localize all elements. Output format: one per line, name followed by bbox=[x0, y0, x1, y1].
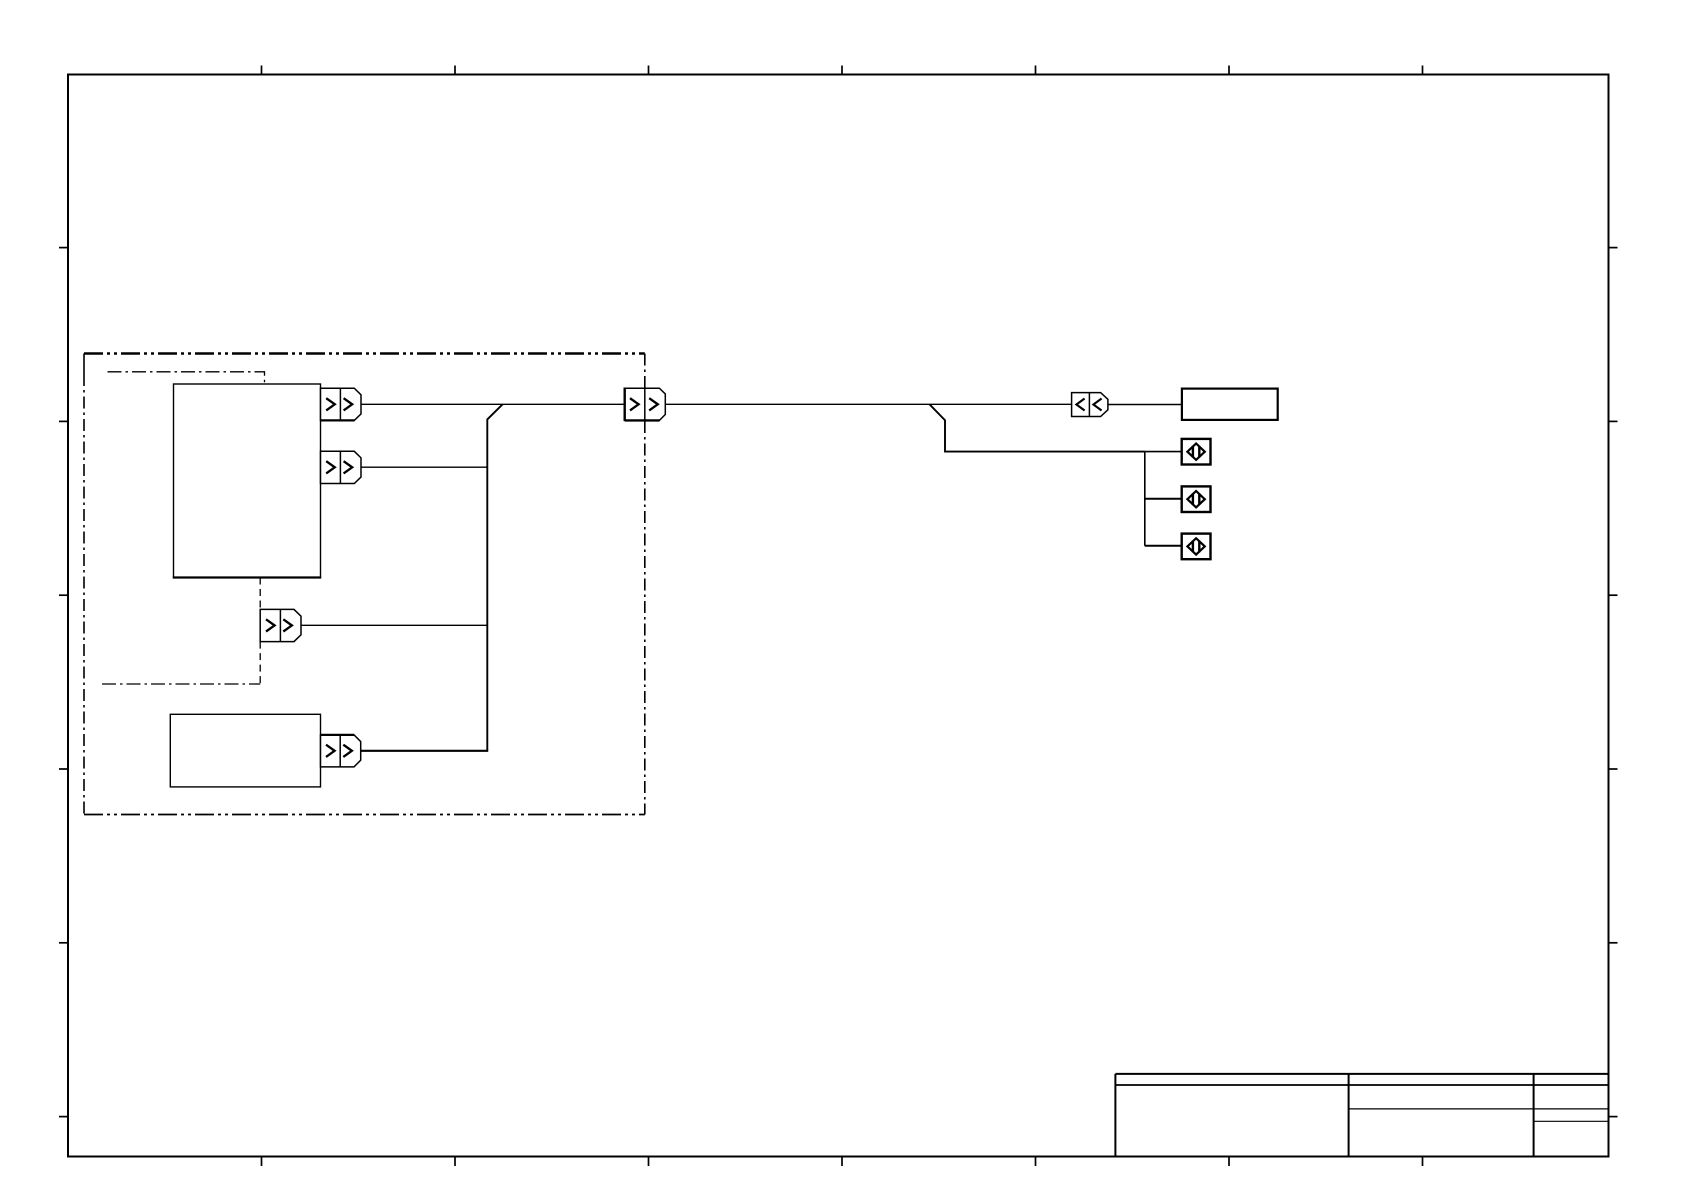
block U2 bbox=[170, 714, 320, 787]
chain line upper bbox=[108, 372, 265, 384]
connector C6 (socket) bbox=[1072, 393, 1108, 417]
block U1 bbox=[174, 384, 321, 578]
connector C5 bbox=[321, 735, 361, 767]
device label box bbox=[1182, 389, 1278, 420]
block U1 bottom edge bbox=[173, 576, 321, 578]
harness boundary (phantom box) bbox=[84, 354, 645, 815]
sensor connector S1 bbox=[1182, 439, 1211, 465]
dashed lead below connector C4 bbox=[259, 642, 261, 684]
wire main cable bbox=[665, 403, 1071, 405]
sensor connector S2 bbox=[1182, 486, 1211, 512]
wire W1 bbox=[361, 403, 625, 405]
wire bus junction bbox=[487, 404, 502, 750]
wire W5 bbox=[1108, 404, 1182, 406]
wire W3 bbox=[301, 624, 487, 626]
wire W2 bbox=[361, 466, 487, 468]
sensor connector S3 bbox=[1182, 534, 1211, 560]
chain line lower bbox=[102, 683, 260, 685]
dashed lead above connector C4 bbox=[259, 578, 261, 610]
connector C2 bbox=[321, 451, 362, 483]
wire stub to sensor S2 bbox=[1145, 498, 1182, 500]
wire branch to sensors bbox=[930, 404, 1145, 451]
wire sensor bus vertical bbox=[1144, 452, 1146, 546]
connector C3 (inline at boundary) bbox=[625, 388, 666, 422]
wire stub to sensor S3 bbox=[1145, 545, 1182, 547]
connector C4 bbox=[260, 609, 301, 641]
title block bbox=[1115, 1074, 1608, 1157]
wire stub to sensor S1 bbox=[1145, 451, 1182, 453]
connector C1 bbox=[321, 388, 362, 420]
wire W4 bbox=[361, 750, 489, 752]
